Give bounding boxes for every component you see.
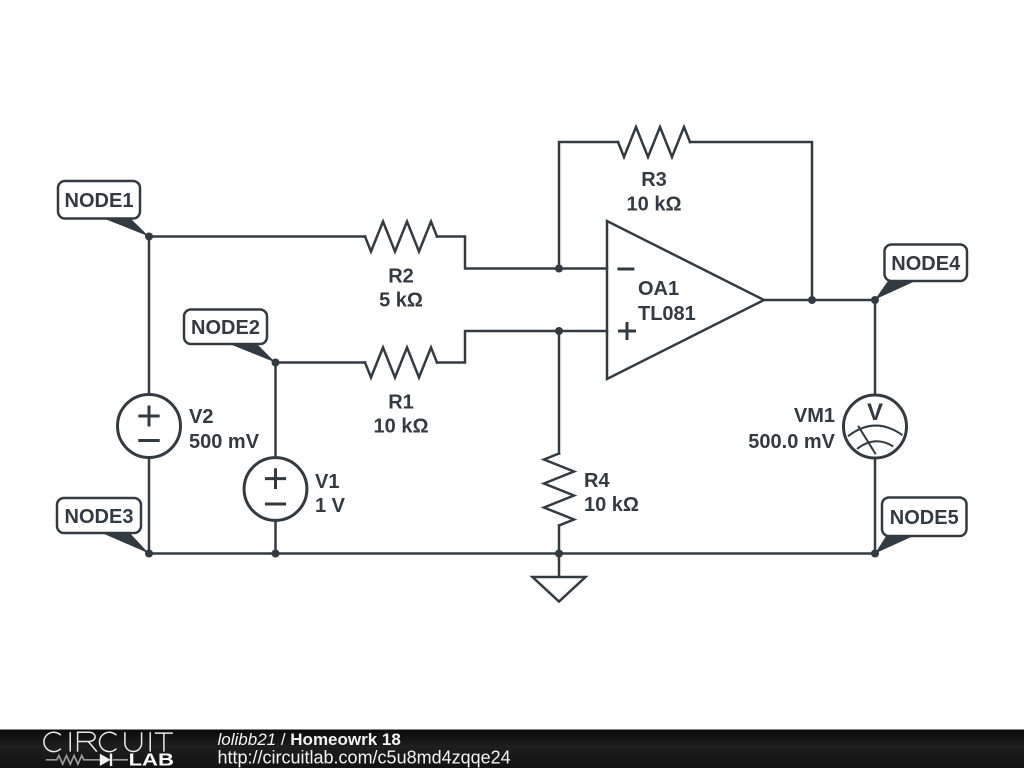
svg-text:500 mV: 500 mV xyxy=(189,431,260,453)
label R4 value xyxy=(584,470,639,516)
wire R4 to bottom rail xyxy=(558,526,561,554)
svg-text:http://circuitlab.com/c5u8md4z: http://circuitlab.com/c5u8md4zqqe24 xyxy=(218,748,511,768)
svg-text:NODE1: NODE1 xyxy=(65,190,134,212)
label V2 value xyxy=(189,406,260,453)
svg-text:NODE4: NODE4 xyxy=(891,253,961,275)
resistor R4 xyxy=(544,454,574,526)
node junction V1 bottom xyxy=(272,550,280,558)
node flag NODE2 xyxy=(184,310,276,363)
voltage source V2 xyxy=(118,395,181,458)
wire R1 to op-amp non-inverting input xyxy=(437,331,607,363)
svg-text:R1: R1 xyxy=(388,392,414,414)
svg-text:NODE2: NODE2 xyxy=(191,317,260,339)
logo resistor-diode squiggle xyxy=(46,756,128,765)
logo CIRCUIT letters xyxy=(44,732,173,751)
node flag NODE1 xyxy=(58,181,149,237)
svg-text:V1: V1 xyxy=(315,471,339,493)
wire NODE1 down to V2 xyxy=(148,237,151,395)
svg-text:1 V: 1 V xyxy=(315,495,346,517)
label R1 value xyxy=(374,392,429,438)
label R2 value xyxy=(379,266,423,312)
voltage source V1 xyxy=(244,458,307,521)
voltmeter VM1 xyxy=(844,395,907,458)
label R3 value xyxy=(627,169,682,216)
svg-text:R4: R4 xyxy=(584,470,610,492)
wire voltmeter to bottom rail xyxy=(874,458,877,554)
label V1 value xyxy=(315,471,346,517)
resistor R2 xyxy=(365,222,437,252)
node flag NODE4 xyxy=(875,245,967,300)
resistor R3 xyxy=(618,127,690,157)
wire V1 to bottom rail xyxy=(274,520,277,553)
svg-text:500.0 mV: 500.0 mV xyxy=(748,431,835,453)
svg-text:NODE5: NODE5 xyxy=(890,507,959,529)
wire plus node down to R4 xyxy=(558,331,561,454)
svg-text:5 kΩ: 5 kΩ xyxy=(379,290,423,312)
logo diode symbol xyxy=(100,754,111,766)
op-amp OA1 triangle xyxy=(607,221,764,379)
svg-text:R2: R2 xyxy=(388,266,414,288)
svg-text:VM1: VM1 xyxy=(794,405,835,427)
op-amp minus symbol xyxy=(617,268,634,271)
node junction NODE5 xyxy=(871,550,879,558)
wire NODE4 down to voltmeter xyxy=(874,300,877,395)
node junction non-inverting input xyxy=(555,327,563,335)
wire NODE1 to R2 xyxy=(149,235,365,238)
svg-text:V2: V2 xyxy=(189,406,213,428)
node flag NODE5 xyxy=(875,498,967,554)
node junction feedback-output xyxy=(808,296,816,304)
resistor R1 xyxy=(365,348,437,378)
op-amp plus symbol xyxy=(618,322,636,340)
wire NODE2 to R1 xyxy=(276,361,366,364)
wire feedback right to output xyxy=(690,142,812,300)
svg-text:LAB: LAB xyxy=(129,750,174,768)
node junction inverting input xyxy=(555,265,563,273)
node junction NODE3 xyxy=(145,550,153,558)
wire bottom rail xyxy=(149,552,875,555)
svg-text:R3: R3 xyxy=(641,169,667,191)
label VM1 value xyxy=(748,405,835,453)
wire V2 to bottom rail xyxy=(148,458,151,554)
svg-text:lolibb21 / Homeowrk 18: lolibb21 / Homeowrk 18 xyxy=(218,730,401,749)
node junction NODE2 xyxy=(272,359,280,367)
svg-text:V: V xyxy=(867,399,883,426)
wire R2 to op-amp inverting input xyxy=(437,237,607,269)
svg-text:10 kΩ: 10 kΩ xyxy=(584,494,639,516)
wire NODE2 down to V1 xyxy=(274,363,277,458)
node flag NODE3 xyxy=(57,498,149,554)
svg-text:TL081: TL081 xyxy=(638,303,696,325)
node junction at NODE1 xyxy=(145,233,153,241)
svg-text:10 kΩ: 10 kΩ xyxy=(627,194,682,216)
wire feedback left vertical xyxy=(559,142,618,269)
ground stem xyxy=(558,554,561,578)
svg-text:OA1: OA1 xyxy=(638,278,679,300)
wire op-amp output xyxy=(764,299,875,302)
svg-text:NODE3: NODE3 xyxy=(65,506,134,528)
node junction NODE4 xyxy=(871,296,879,304)
svg-text:10 kΩ: 10 kΩ xyxy=(374,416,429,438)
node junction R4 bottom xyxy=(555,550,563,558)
ground symbol triangle xyxy=(533,577,586,602)
label OA1 TL081 xyxy=(638,278,696,325)
